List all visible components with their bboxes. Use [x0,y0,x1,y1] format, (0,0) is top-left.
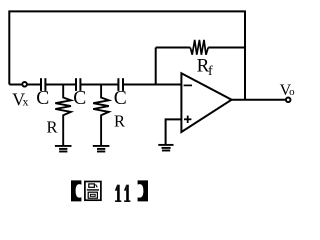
wire input segment A [9,84,41,86]
svg-text:x: x [23,94,29,108]
wire Rf left segment [156,47,191,49]
svg-text:C: C [36,88,49,109]
op-amp minus pin label [184,84,192,86]
svg-text:f: f [208,64,213,79]
svg-text:C: C [114,88,127,109]
wire non-inverting input [166,119,182,144]
svg-text:C: C [73,88,86,109]
node Vx input terminal [22,82,27,87]
caption text 11 [115,185,131,202]
node Vo output terminal [286,98,291,103]
wire top feedback loop [9,11,245,99]
op-amp U1 [181,73,231,132]
caption right lenticular bracket [138,180,148,201]
resistor R2 [93,85,109,146]
wire Rf right segment [208,47,245,49]
svg-text:R: R [114,112,125,131]
capacitor C3 [118,78,123,91]
caption CJK glyph tu (figure) [85,182,101,201]
ground at op-amp non-inverting input [158,145,173,151]
wire segment C between C2 and C3 [80,84,118,86]
op-amp plus pin label [184,116,191,123]
resistor Rf [190,40,208,55]
resistor R1 [55,85,71,146]
ground under R2 [93,146,110,152]
wire segment B between C1 and C2 [45,84,76,86]
capacitor C1 [41,78,45,91]
svg-text:o: o [289,86,295,98]
wire Rf branch vertical from inverting node [155,48,157,85]
wire output [232,99,286,101]
ground under R1 [55,146,72,152]
caption figure 11: left lenticular bracket [71,180,81,201]
svg-text:R: R [46,118,57,137]
capacitor C2 [76,78,80,91]
wire segment D from C3 to op-amp inverting input [123,84,181,86]
